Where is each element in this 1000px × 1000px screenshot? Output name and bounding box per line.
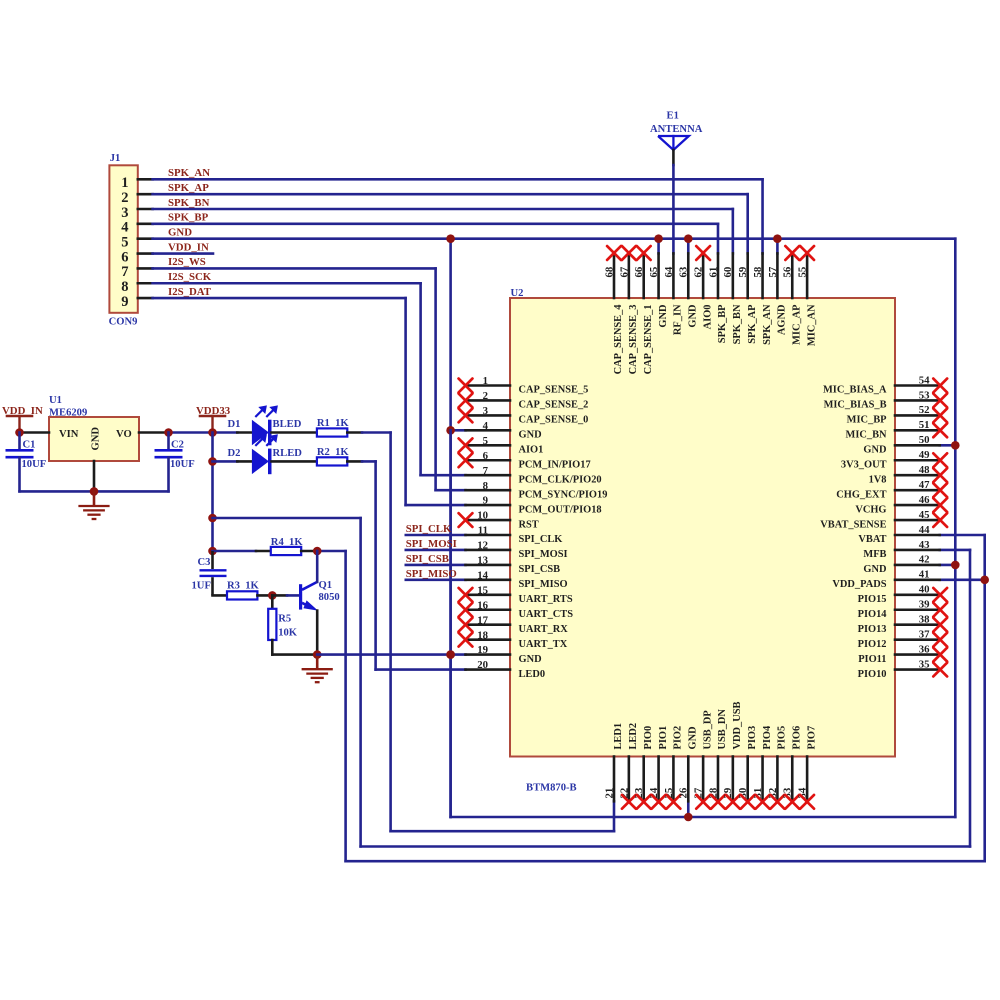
- svg-text:C2: C2: [171, 440, 184, 451]
- svg-text:67: 67: [618, 266, 630, 277]
- svg-text:PCM_OUT/PIO18: PCM_OUT/PIO18: [519, 504, 602, 515]
- svg-text:44: 44: [919, 524, 930, 536]
- svg-text:50: 50: [919, 434, 930, 446]
- svg-text:37: 37: [919, 628, 930, 640]
- svg-text:CAP_SENSE_4: CAP_SENSE_4: [613, 305, 624, 375]
- svg-text:CAP_SENSE_1: CAP_SENSE_1: [643, 305, 654, 375]
- svg-text:C3: C3: [198, 557, 211, 568]
- svg-text:MIC_AN: MIC_AN: [806, 304, 817, 346]
- svg-text:CAP_SENSE_0: CAP_SENSE_0: [519, 415, 589, 426]
- svg-text:I2S_WS: I2S_WS: [168, 256, 206, 268]
- svg-text:MIC_BP: MIC_BP: [847, 415, 887, 426]
- svg-text:LED2: LED2: [628, 723, 639, 750]
- svg-text:VDD_USB: VDD_USB: [732, 702, 743, 750]
- svg-text:LED1: LED1: [613, 723, 624, 750]
- svg-text:SPK_AP: SPK_AP: [747, 304, 758, 344]
- svg-text:SPI_CLK: SPI_CLK: [406, 523, 452, 535]
- svg-text:59: 59: [737, 266, 749, 277]
- svg-text:SPK_BN: SPK_BN: [168, 197, 210, 209]
- svg-text:20: 20: [477, 659, 488, 671]
- svg-text:49: 49: [919, 449, 930, 461]
- svg-text:PIO1: PIO1: [658, 726, 669, 750]
- svg-text:PIO0: PIO0: [643, 726, 654, 750]
- svg-text:13: 13: [477, 555, 488, 567]
- svg-text:R5: R5: [278, 614, 291, 625]
- svg-text:61: 61: [707, 267, 719, 278]
- svg-text:PIO14: PIO14: [858, 609, 887, 620]
- svg-text:E1: E1: [667, 111, 679, 122]
- svg-text:CHG_EXT: CHG_EXT: [836, 489, 886, 500]
- svg-text:48: 48: [919, 464, 930, 476]
- svg-text:USB_DP: USB_DP: [702, 710, 713, 750]
- svg-text:RF_IN: RF_IN: [673, 304, 684, 335]
- svg-text:8: 8: [121, 279, 128, 295]
- svg-text:UART_RTS: UART_RTS: [519, 594, 573, 605]
- svg-text:9: 9: [483, 495, 489, 507]
- svg-text:5: 5: [121, 235, 128, 251]
- svg-text:26: 26: [678, 787, 690, 798]
- svg-text:BTM870-B: BTM870-B: [526, 783, 577, 794]
- svg-text:46: 46: [919, 494, 930, 506]
- svg-text:52: 52: [919, 404, 930, 416]
- svg-text:17: 17: [477, 614, 488, 626]
- svg-text:D1: D1: [228, 419, 241, 430]
- svg-text:21: 21: [603, 788, 615, 799]
- svg-text:GND: GND: [168, 227, 192, 239]
- svg-text:CAP_SENSE_2: CAP_SENSE_2: [519, 400, 589, 411]
- svg-text:ANTENNA: ANTENNA: [650, 124, 703, 135]
- svg-text:SPI_MISO: SPI_MISO: [519, 579, 568, 590]
- svg-text:1: 1: [121, 175, 128, 191]
- svg-text:43: 43: [919, 539, 930, 551]
- svg-text:AIO1: AIO1: [519, 445, 544, 456]
- svg-text:36: 36: [919, 643, 930, 655]
- svg-text:Q1: Q1: [319, 580, 333, 591]
- svg-text:PCM_IN/PIO17: PCM_IN/PIO17: [519, 459, 591, 470]
- svg-text:SPI_CSB: SPI_CSB: [406, 553, 449, 565]
- svg-text:J1: J1: [110, 153, 121, 164]
- svg-text:MFB: MFB: [863, 549, 886, 560]
- svg-text:PIO2: PIO2: [673, 726, 684, 750]
- svg-text:GND: GND: [687, 305, 698, 328]
- svg-text:VBAT_SENSE: VBAT_SENSE: [820, 519, 886, 530]
- svg-text:GND: GND: [91, 427, 102, 451]
- svg-text:PIO12: PIO12: [858, 639, 887, 650]
- svg-text:3: 3: [121, 205, 128, 221]
- svg-text:GND: GND: [519, 430, 542, 441]
- svg-text:PIO5: PIO5: [777, 726, 788, 750]
- svg-text:LED0: LED0: [519, 669, 546, 680]
- svg-text:6: 6: [121, 249, 128, 265]
- svg-text:SPI_CSB: SPI_CSB: [519, 564, 561, 575]
- svg-text:SPK_AN: SPK_AN: [762, 304, 773, 345]
- svg-text:55: 55: [797, 267, 809, 278]
- svg-text:3V3_OUT: 3V3_OUT: [841, 459, 887, 470]
- svg-text:U2: U2: [511, 288, 524, 299]
- svg-text:VO: VO: [116, 429, 132, 440]
- svg-text:PIO15: PIO15: [858, 594, 887, 605]
- svg-text:MIC_AP: MIC_AP: [791, 304, 802, 345]
- svg-text:8050: 8050: [319, 592, 340, 603]
- svg-text:45: 45: [919, 509, 930, 521]
- svg-text:U1: U1: [49, 395, 62, 406]
- svg-text:USB_DN: USB_DN: [717, 709, 728, 750]
- svg-text:GND: GND: [863, 564, 886, 575]
- svg-text:41: 41: [919, 569, 930, 581]
- svg-text:PIO6: PIO6: [791, 726, 802, 750]
- svg-text:AIO0: AIO0: [702, 305, 713, 330]
- svg-text:4: 4: [121, 220, 128, 236]
- svg-text:RLED: RLED: [273, 448, 303, 459]
- svg-text:3: 3: [483, 405, 489, 417]
- svg-text:VBAT: VBAT: [858, 534, 886, 545]
- svg-text:5: 5: [483, 435, 488, 447]
- svg-text:56: 56: [782, 266, 794, 277]
- svg-text:1: 1: [483, 375, 488, 387]
- svg-text:GND: GND: [687, 726, 698, 749]
- svg-text:10: 10: [477, 510, 488, 522]
- svg-text:38: 38: [919, 614, 930, 626]
- svg-text:SPK_BN: SPK_BN: [732, 304, 743, 344]
- svg-text:64: 64: [663, 266, 675, 277]
- svg-text:18: 18: [477, 629, 488, 641]
- svg-text:2: 2: [483, 390, 488, 402]
- svg-text:VDD_PADS: VDD_PADS: [832, 579, 886, 590]
- svg-text:11: 11: [478, 525, 488, 537]
- svg-text:MIC_BIAS_A: MIC_BIAS_A: [823, 385, 887, 396]
- svg-text:SPI_MOSI: SPI_MOSI: [406, 538, 457, 550]
- svg-text:C1: C1: [23, 440, 36, 451]
- svg-text:57: 57: [767, 266, 779, 277]
- svg-text:CAP_SENSE_3: CAP_SENSE_3: [628, 305, 639, 375]
- svg-text:66: 66: [633, 266, 645, 277]
- svg-text:10K: 10K: [278, 628, 298, 639]
- svg-text:CAP_SENSE_5: CAP_SENSE_5: [519, 385, 589, 396]
- svg-text:PIO10: PIO10: [858, 669, 887, 680]
- svg-text:19: 19: [477, 644, 488, 656]
- svg-text:PIO7: PIO7: [806, 726, 817, 750]
- svg-text:9: 9: [121, 294, 128, 310]
- svg-text:6: 6: [483, 450, 489, 462]
- svg-text:58: 58: [752, 266, 764, 277]
- svg-text:BLED: BLED: [273, 419, 302, 430]
- svg-text:65: 65: [648, 267, 660, 278]
- svg-text:CON9: CON9: [109, 317, 138, 328]
- svg-text:4: 4: [483, 420, 489, 432]
- svg-text:51: 51: [919, 419, 930, 431]
- svg-text:MIC_BIAS_B: MIC_BIAS_B: [824, 400, 887, 411]
- svg-text:RST: RST: [519, 519, 539, 530]
- svg-text:SPI_CLK: SPI_CLK: [519, 534, 563, 545]
- svg-text:GND: GND: [658, 305, 669, 328]
- svg-text:AGND: AGND: [777, 305, 788, 336]
- svg-text:68: 68: [603, 266, 615, 277]
- svg-text:PIO4: PIO4: [762, 726, 773, 750]
- svg-text:UART_RX: UART_RX: [519, 624, 569, 635]
- svg-text:1UF: 1UF: [192, 581, 211, 592]
- svg-text:40: 40: [919, 584, 930, 596]
- svg-text:PIO11: PIO11: [858, 654, 886, 665]
- svg-text:35: 35: [919, 658, 930, 670]
- svg-text:I2S_SCK: I2S_SCK: [168, 271, 212, 283]
- svg-text:SPK_BP: SPK_BP: [717, 304, 728, 343]
- svg-text:62: 62: [693, 267, 705, 278]
- svg-text:14: 14: [477, 569, 488, 581]
- svg-text:15: 15: [477, 584, 488, 596]
- svg-text:10UF: 10UF: [22, 459, 47, 470]
- svg-text:16: 16: [477, 599, 488, 611]
- svg-text:SPI_MISO: SPI_MISO: [406, 568, 457, 580]
- svg-text:R3 1K: R3 1K: [227, 580, 260, 591]
- svg-text:GND: GND: [863, 445, 886, 456]
- svg-text:53: 53: [919, 389, 930, 401]
- svg-text:PCM_CLK/PIO20: PCM_CLK/PIO20: [519, 474, 602, 485]
- svg-text:PCM_SYNC/PIO19: PCM_SYNC/PIO19: [519, 489, 608, 500]
- svg-text:39: 39: [919, 599, 930, 611]
- svg-text:UART_TX: UART_TX: [519, 639, 568, 650]
- svg-text:1V8: 1V8: [869, 474, 887, 485]
- svg-text:47: 47: [919, 479, 930, 491]
- svg-text:I2S_DAT: I2S_DAT: [168, 286, 212, 298]
- svg-text:VDD_IN: VDD_IN: [168, 241, 209, 253]
- svg-text:60: 60: [722, 267, 734, 278]
- svg-text:42: 42: [919, 554, 930, 566]
- svg-text:63: 63: [678, 266, 690, 277]
- svg-text:2: 2: [121, 190, 128, 206]
- svg-text:54: 54: [919, 374, 930, 386]
- svg-text:SPI_MOSI: SPI_MOSI: [519, 549, 568, 560]
- svg-text:PIO3: PIO3: [747, 726, 758, 750]
- svg-text:MIC_BN: MIC_BN: [846, 430, 887, 441]
- svg-text:D2: D2: [228, 448, 241, 459]
- svg-text:12: 12: [477, 540, 488, 552]
- svg-text:SPK_AP: SPK_AP: [168, 182, 209, 194]
- svg-text:UART_CTS: UART_CTS: [519, 609, 574, 620]
- svg-text:SPK_BP: SPK_BP: [168, 212, 209, 224]
- svg-text:VIN: VIN: [59, 429, 79, 440]
- svg-text:7: 7: [121, 264, 128, 280]
- svg-text:GND: GND: [519, 654, 542, 665]
- svg-text:SPK_AN: SPK_AN: [168, 167, 210, 179]
- svg-text:7: 7: [483, 465, 489, 477]
- svg-text:10UF: 10UF: [170, 459, 195, 470]
- svg-text:8: 8: [483, 480, 489, 492]
- svg-text:PIO13: PIO13: [858, 624, 887, 635]
- svg-text:VCHG: VCHG: [855, 504, 886, 515]
